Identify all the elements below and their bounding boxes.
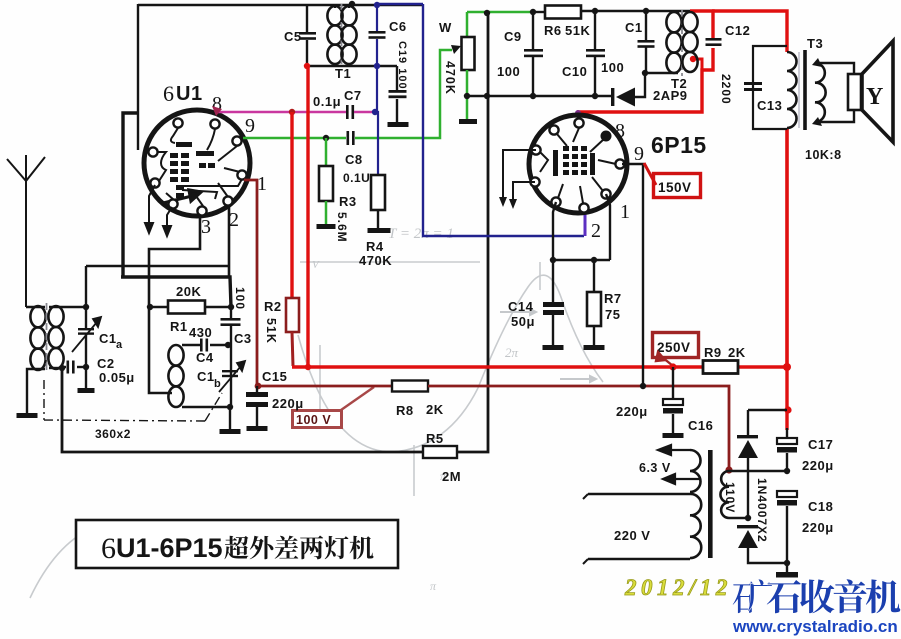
wire R5 right to grid-return vertical bbox=[457, 13, 488, 452]
svg-text:2M: 2M bbox=[442, 469, 461, 484]
svg-text:2K: 2K bbox=[426, 402, 444, 417]
wire speaker top lead bbox=[818, 63, 854, 74]
heater supply arrow upper bbox=[658, 445, 690, 455]
wire D1 to junction bbox=[747, 458, 749, 518]
title char 外 bbox=[250, 536, 274, 560]
capacitor C13 loop bbox=[753, 46, 787, 129]
wire T2 bottom link bbox=[645, 72, 678, 74]
wire 6P15 cathode down bbox=[553, 202, 556, 260]
wire secondary bottom to C2 bbox=[49, 367, 62, 369]
tube 6U1 pin circle br bbox=[223, 196, 232, 205]
wire C2 left lead bbox=[62, 366, 66, 368]
wire mains top lead bbox=[588, 493, 690, 496]
title char 两 bbox=[300, 536, 323, 560]
svg-text:10K:8: 10K:8 bbox=[805, 148, 842, 162]
tube 6U1 pin circle l bbox=[148, 147, 157, 156]
node C2 left bbox=[59, 365, 65, 371]
wire magenta C7 to blue node bbox=[354, 111, 375, 113]
wire purple grid tail bbox=[584, 209, 587, 236]
tube 6U1 envelope bbox=[144, 110, 250, 216]
svg-text:51K: 51K bbox=[264, 318, 278, 344]
svg-text:110V: 110V bbox=[723, 482, 737, 513]
wire T1 primary stubs bbox=[334, 4, 336, 8]
capacitor C9 plates bbox=[524, 49, 543, 57]
wire green R3 upper bbox=[325, 138, 328, 166]
wire C16 upper lead bbox=[672, 367, 674, 399]
svg-text:Y: Y bbox=[866, 84, 884, 110]
svg-text:2012/12: 2012/12 bbox=[624, 575, 732, 600]
tube 6P15 pin circle rl bbox=[601, 189, 610, 198]
wire left vertical from top bus to 6U1 grid bbox=[137, 4, 139, 150]
faint gray arrows bbox=[500, 309, 596, 382]
svg-text:T = 2π = 1: T = 2π = 1 bbox=[388, 226, 454, 242]
heater wire 6P15 b bbox=[513, 182, 535, 200]
svg-text:U1-6P15: U1-6P15 bbox=[116, 533, 223, 563]
node cathode right bbox=[591, 257, 597, 263]
wire red bus junction down to C17 node bbox=[785, 367, 788, 430]
tube 6U1 internal electrodes bbox=[157, 128, 242, 206]
svg-text:R4: R4 bbox=[366, 239, 384, 254]
wire D1 upper lead bbox=[747, 410, 749, 437]
svg-text:220μ: 220μ bbox=[272, 396, 304, 411]
node red C5 bottom bbox=[304, 63, 310, 69]
callout 250V pointer bbox=[656, 352, 673, 366]
speaker Y cone bbox=[862, 41, 893, 142]
svg-text:C17: C17 bbox=[808, 437, 833, 452]
svg-text:U1: U1 bbox=[176, 83, 203, 105]
node C1a top bbox=[83, 304, 89, 310]
wire maroon screen feed line bbox=[257, 385, 392, 388]
capacitor C2 plates bbox=[67, 361, 75, 374]
tube 6P15 pin circle bl bbox=[551, 197, 560, 206]
svg-text:250V: 250V bbox=[657, 340, 691, 355]
wire pin2 to tuned circuit bbox=[86, 265, 229, 267]
svg-text:0.05μ: 0.05μ bbox=[99, 370, 135, 385]
svg-text:2: 2 bbox=[229, 209, 240, 231]
wire navy top segment bbox=[377, 3, 423, 5]
heater supply arrow lower bbox=[663, 474, 701, 484]
node PSU ground join bbox=[784, 560, 790, 566]
wire magenta 6U1 pin8 to C7 bbox=[218, 111, 346, 113]
watermark char 石 bbox=[767, 580, 801, 613]
svg-text:C13: C13 bbox=[757, 98, 782, 113]
wire thick AVC horizontal to R1 node bbox=[121, 277, 231, 307]
node screen line / pin9 drop bbox=[640, 383, 646, 389]
svg-text:T3: T3 bbox=[807, 36, 823, 51]
wire C6 bottom lead bbox=[376, 39, 378, 67]
wire maroon R8 to PSU bbox=[428, 386, 729, 470]
svg-text:C19 100: C19 100 bbox=[396, 41, 408, 90]
svg-text:C12: C12 bbox=[725, 23, 750, 38]
svg-text:1: 1 bbox=[620, 201, 631, 223]
resistor R2 51K (maroon outline) bbox=[286, 298, 299, 332]
capacitor C5 plates bbox=[299, 32, 316, 40]
svg-text:C1: C1 bbox=[197, 369, 215, 384]
svg-text:2π: 2π bbox=[505, 345, 519, 360]
antenna bbox=[7, 155, 45, 307]
wire C16 lower lead bbox=[672, 414, 674, 433]
tube 6U1 pin circle b bbox=[197, 206, 206, 215]
capacitor C15 plates bbox=[246, 392, 268, 407]
svg-text:R2: R2 bbox=[264, 299, 282, 314]
svg-text:150V: 150V bbox=[658, 180, 692, 195]
heater arrow 6U1 b bbox=[163, 207, 172, 236]
transformer T2 secondary bbox=[682, 12, 697, 72]
svg-text:75: 75 bbox=[605, 307, 620, 322]
capacitor C12 plates bbox=[706, 38, 722, 46]
svg-text:C8: C8 bbox=[345, 152, 363, 167]
svg-text:0.1μ: 0.1μ bbox=[313, 94, 341, 109]
wire C5 bottom lead bbox=[306, 40, 308, 66]
svg-text:100 V: 100 V bbox=[296, 413, 331, 427]
wire green R3 lower bbox=[325, 201, 328, 224]
svg-text:6.3 V: 6.3 V bbox=[639, 461, 671, 475]
wire C3 line upper bbox=[230, 307, 232, 318]
ground C1a bbox=[78, 388, 95, 393]
wire C1a lead bbox=[85, 307, 87, 329]
ground R7 bbox=[584, 345, 605, 350]
capacitor C8 plates bbox=[347, 131, 355, 145]
diode 2AP9 bbox=[611, 88, 635, 107]
wire L2 bottom bbox=[182, 406, 230, 408]
svg-text:6: 6 bbox=[163, 81, 175, 106]
transformer PT 220V primary bbox=[690, 494, 701, 558]
wire C1 lower lead bbox=[645, 47, 647, 73]
wire R4 to ground bbox=[377, 210, 379, 228]
transformer T3 secondary bbox=[815, 63, 826, 122]
capacitor C1b arrow bbox=[219, 361, 245, 392]
node C17/C18 bbox=[784, 468, 790, 474]
wire antenna to coil bbox=[26, 306, 45, 308]
svg-text:100: 100 bbox=[233, 287, 247, 310]
node pot bottom bbox=[464, 93, 470, 99]
title char 机 bbox=[350, 536, 374, 560]
svg-text:220μ: 220μ bbox=[802, 458, 834, 473]
tube 6U1 pin circle tl bbox=[173, 118, 182, 127]
wire winding bottom to diodes bbox=[729, 517, 748, 519]
node cathode left bbox=[550, 257, 556, 263]
tube 6P15 pin circle tl bbox=[549, 125, 558, 134]
node red T2 secondary bottom bbox=[690, 56, 696, 62]
capacitor C1a arrow bbox=[72, 317, 101, 352]
capacitor C7 plates bbox=[346, 105, 354, 119]
node C9 bottom bbox=[530, 93, 536, 99]
transformer T2 primary bbox=[666, 12, 681, 73]
svg-text:220μ: 220μ bbox=[802, 520, 834, 535]
heater wire 6P15 a bbox=[503, 150, 536, 198]
wire C1a top feed bbox=[85, 266, 87, 307]
svg-text:1: 1 bbox=[257, 173, 268, 195]
svg-text:R7: R7 bbox=[604, 291, 622, 306]
svg-text:9: 9 bbox=[634, 143, 645, 165]
svg-text:C3: C3 bbox=[234, 331, 252, 346]
svg-text:T1: T1 bbox=[335, 66, 351, 81]
svg-text:100: 100 bbox=[497, 64, 520, 79]
svg-text:2K: 2K bbox=[728, 345, 746, 360]
wire red vertical B (from C5 node) bbox=[306, 66, 309, 368]
antenna coil secondary L1 bbox=[48, 306, 63, 369]
node R3 top bbox=[323, 135, 329, 141]
heater arrow 6U1 a bbox=[145, 185, 155, 233]
gang link dash-dot line bbox=[44, 380, 222, 421]
title char 灯 bbox=[325, 536, 349, 559]
node red bus/vertical B bbox=[305, 364, 311, 370]
svg-text:C4: C4 bbox=[196, 350, 214, 365]
wire R1 left lead bbox=[149, 306, 168, 308]
wire red B+ bus 250V rail bbox=[292, 365, 787, 369]
transformer PT 110V secondary bbox=[720, 471, 729, 518]
wire coil primary bottom to ground bbox=[27, 369, 45, 413]
diode D1 1N4007 bbox=[737, 435, 758, 458]
node C10 bottom bbox=[592, 93, 598, 99]
wire green C8 to pot wiper bbox=[355, 50, 452, 138]
mains lead tick bottom bbox=[583, 559, 588, 564]
wire C2 right lead bbox=[77, 366, 86, 368]
wire D2 lower lead bbox=[748, 548, 787, 563]
wire red to C17 tail bbox=[786, 428, 788, 438]
wire C15 lower lead bbox=[256, 407, 258, 426]
node R1 left bbox=[147, 304, 153, 310]
capacitor C13 plates bbox=[744, 82, 762, 91]
capacitor C10 plates bbox=[586, 49, 605, 57]
svg-text:b: b bbox=[214, 378, 221, 390]
wire maroon 6U1 pin1 bbox=[244, 180, 257, 386]
wire red vertical A (from magenta node) bbox=[290, 112, 293, 298]
wire red C12 top to T2 top bbox=[690, 11, 713, 38]
wire R1 right lead bbox=[205, 306, 232, 308]
wire C3 line lower bbox=[230, 326, 232, 345]
wire C1a to ground bbox=[85, 334, 87, 388]
capacitor C6 plates bbox=[369, 31, 386, 39]
node red C17 branch bbox=[784, 406, 791, 413]
wire cathode bus bbox=[553, 259, 610, 261]
transformer T1 secondary bbox=[341, 6, 356, 64]
wire C14 lower lead bbox=[552, 315, 554, 345]
wire C17 to node bbox=[786, 453, 788, 471]
node grid-return/AGC cross bbox=[484, 93, 490, 99]
svg-text:www.crystalradio.cn: www.crystalradio.cn bbox=[732, 617, 898, 636]
svg-text:T2: T2 bbox=[671, 76, 687, 91]
transformer PT core bbox=[708, 450, 713, 558]
wire red T2 top to T3 bbox=[712, 11, 787, 52]
resistor R4 470K bbox=[371, 175, 385, 210]
svg-text:220μ: 220μ bbox=[616, 404, 648, 419]
svg-text:220 V: 220 V bbox=[614, 528, 650, 543]
wire T1 secondary stub top bbox=[348, 4, 350, 8]
node red plate at tube bbox=[575, 110, 581, 116]
wire maroon R2 lower bbox=[292, 332, 293, 366]
svg-text:0.1U: 0.1U bbox=[343, 171, 370, 185]
tube 6U1 pin circle bl bbox=[168, 199, 177, 208]
tube 6U1 pin circle ll bbox=[150, 178, 159, 187]
arrowhead wiper W bbox=[451, 45, 461, 54]
heater arrowhead a bbox=[499, 197, 507, 207]
wire C17 branch horizontal bbox=[748, 409, 787, 411]
svg-text:C6: C6 bbox=[389, 19, 407, 34]
node maroon rectifier top bbox=[725, 466, 732, 473]
svg-text:C5: C5 bbox=[284, 29, 302, 44]
callout 150V box bbox=[654, 174, 701, 198]
svg-text:9: 9 bbox=[245, 115, 256, 137]
node C7/navy junction bbox=[372, 109, 378, 115]
svg-text:a: a bbox=[116, 339, 123, 351]
faint formula text bbox=[312, 226, 519, 593]
ground antenna coil bbox=[17, 413, 38, 418]
wire C18 lower lead bbox=[786, 506, 788, 572]
tube 6P15 pin circle r bbox=[615, 159, 624, 168]
wire C10 lower lead bbox=[594, 57, 596, 97]
tube 6U1 pin circle tm bbox=[210, 119, 219, 128]
wire C5 top lead bbox=[306, 5, 308, 33]
svg-text:5.6M: 5.6M bbox=[335, 212, 349, 243]
wire speaker bottom lead bbox=[818, 110, 854, 122]
heater arrowhead b bbox=[509, 199, 517, 209]
svg-text:R8: R8 bbox=[396, 403, 414, 418]
wire C15 upper lead bbox=[256, 386, 258, 393]
watermark char 收 bbox=[800, 579, 834, 613]
svg-text:R6: R6 bbox=[544, 23, 562, 38]
wire C1b to ground bbox=[229, 407, 231, 429]
wire T2 primary top stub bbox=[677, 11, 679, 13]
svg-text:470K: 470K bbox=[443, 61, 457, 95]
svg-text:1N4007X2: 1N4007X2 bbox=[755, 478, 769, 543]
tube 6U1 pin circle r bbox=[232, 136, 241, 145]
node C1 bottom bbox=[642, 70, 648, 76]
wire C10 upper lead bbox=[594, 11, 596, 49]
wire 6P15 pin9/screen down bbox=[622, 164, 643, 386]
wire 6U1 pin3 down-left bbox=[149, 210, 200, 307]
callout 150V pointer bbox=[644, 163, 656, 185]
wire 6U1 pin2 down bbox=[228, 206, 231, 277]
wire navy C7 node to R4 bbox=[377, 67, 378, 175]
wire coil secondary top to C1a node bbox=[49, 306, 86, 308]
wire C1 upper lead bbox=[645, 11, 647, 40]
wire navy long vertical to 6P15 grid bbox=[423, 4, 584, 236]
title char 差 bbox=[275, 536, 299, 559]
diode D2 1N4007 bbox=[737, 525, 758, 548]
capacitor C4 plates bbox=[200, 339, 208, 352]
tube 6P15 pin circle b bbox=[579, 203, 588, 212]
wire AGC bottom bus bbox=[467, 95, 612, 97]
wire C9 lower lead bbox=[532, 57, 534, 96]
wire pin1 down bbox=[606, 194, 610, 260]
node C9 top bbox=[530, 9, 536, 15]
watermark char 矿 bbox=[733, 579, 772, 613]
svg-text:R1: R1 bbox=[170, 319, 188, 334]
wire green pot top feed bbox=[467, 11, 533, 14]
wire thick L to 6U1 left bbox=[123, 113, 138, 277]
wire red 6P15 plate line bbox=[577, 48, 713, 112]
antenna coil core bbox=[46, 303, 48, 372]
svg-text:3: 3 bbox=[201, 216, 212, 238]
svg-text:C9: C9 bbox=[504, 29, 522, 44]
svg-text:R3: R3 bbox=[339, 194, 357, 209]
wire doubler mid link bbox=[729, 470, 787, 472]
wire R6 right lead bbox=[581, 10, 690, 12]
svg-text:6P15: 6P15 bbox=[651, 132, 707, 158]
wire green pot lower lead bbox=[466, 70, 469, 119]
svg-text:π: π bbox=[430, 579, 437, 593]
svg-text:C7: C7 bbox=[344, 88, 362, 103]
transformer T1 core bbox=[341, 4, 343, 66]
resistor R9 2K bbox=[703, 361, 738, 374]
svg-text:8: 8 bbox=[615, 120, 626, 142]
wire R7 upper lead bbox=[593, 260, 595, 292]
wire green 6U1 pin9 bus bbox=[243, 137, 346, 140]
wire tuned-circuit bottom long run bbox=[62, 368, 423, 452]
svg-text:C15: C15 bbox=[262, 369, 287, 384]
ground PSU main bbox=[776, 572, 798, 578]
node C10 top bbox=[592, 8, 598, 14]
resistor R6 51K bbox=[545, 6, 581, 19]
ground C16 bbox=[663, 433, 684, 438]
capacitor C1a plates bbox=[78, 328, 94, 335]
resistor R8 2K bbox=[392, 381, 428, 392]
svg-text:430: 430 bbox=[189, 325, 212, 340]
svg-text:C2: C2 bbox=[97, 356, 115, 371]
wire C9 upper lead bbox=[532, 12, 534, 49]
title char 超 bbox=[224, 536, 248, 559]
speaker Y driver bbox=[848, 74, 861, 110]
svg-text:R5: R5 bbox=[426, 431, 444, 446]
oscillator coil L2 bbox=[168, 345, 183, 407]
arrowhead speaker top bbox=[812, 58, 822, 67]
transformer PT 6.3V winding bbox=[690, 450, 701, 492]
node C4/C3 bbox=[225, 342, 231, 348]
wire T1 bottom link bbox=[307, 65, 397, 67]
resistor R3 5.6M bbox=[319, 166, 333, 201]
title box bbox=[76, 520, 398, 568]
tube 6U1 pin circle rl bbox=[237, 170, 246, 179]
resistor R5 2M bbox=[423, 446, 457, 458]
transformer T1 primary bbox=[327, 6, 342, 64]
wire C14 upper lead bbox=[552, 260, 554, 302]
node L2 bottom bbox=[227, 404, 233, 410]
capacitor C16 bbox=[663, 399, 683, 414]
svg-text:C1: C1 bbox=[625, 20, 643, 35]
svg-text:R9: R9 bbox=[704, 345, 722, 360]
potentiometer W 470K body bbox=[462, 37, 475, 70]
node C6 top bbox=[374, 2, 380, 8]
faint graph-paper artifacts bbox=[30, 262, 603, 598]
mains lead tick top bbox=[583, 494, 588, 499]
watermark char 机 bbox=[866, 579, 900, 613]
node T1/C19/navy bottom bbox=[374, 63, 380, 69]
ground C15 bbox=[247, 426, 268, 431]
ground pot W bbox=[459, 119, 477, 124]
svg-text:51K: 51K bbox=[565, 23, 590, 38]
tube 6P15 pin circle l bbox=[531, 145, 540, 154]
capacitor C3 plates bbox=[221, 318, 241, 326]
callout 100V pointer bbox=[341, 387, 374, 410]
ground R3 bbox=[317, 224, 336, 229]
svg-text:W: W bbox=[439, 20, 452, 35]
watermark char 音 bbox=[834, 579, 867, 613]
wire R7 lower lead bbox=[593, 326, 595, 345]
node red bus right bbox=[783, 363, 791, 371]
svg-text:2200: 2200 bbox=[719, 74, 733, 105]
ground C14 bbox=[543, 345, 564, 350]
node maroon C15 top bbox=[255, 383, 262, 390]
transformer T2 core bbox=[681, 10, 683, 76]
node T1 top left bbox=[349, 1, 355, 7]
wire green pot upper lead bbox=[466, 12, 469, 37]
svg-text:C14: C14 bbox=[508, 299, 534, 314]
svg-text:6: 6 bbox=[101, 532, 117, 565]
svg-text:20K: 20K bbox=[176, 284, 201, 299]
tube 6P15 internal electrodes bbox=[540, 128, 616, 203]
wire osc left leg bbox=[149, 307, 172, 393]
